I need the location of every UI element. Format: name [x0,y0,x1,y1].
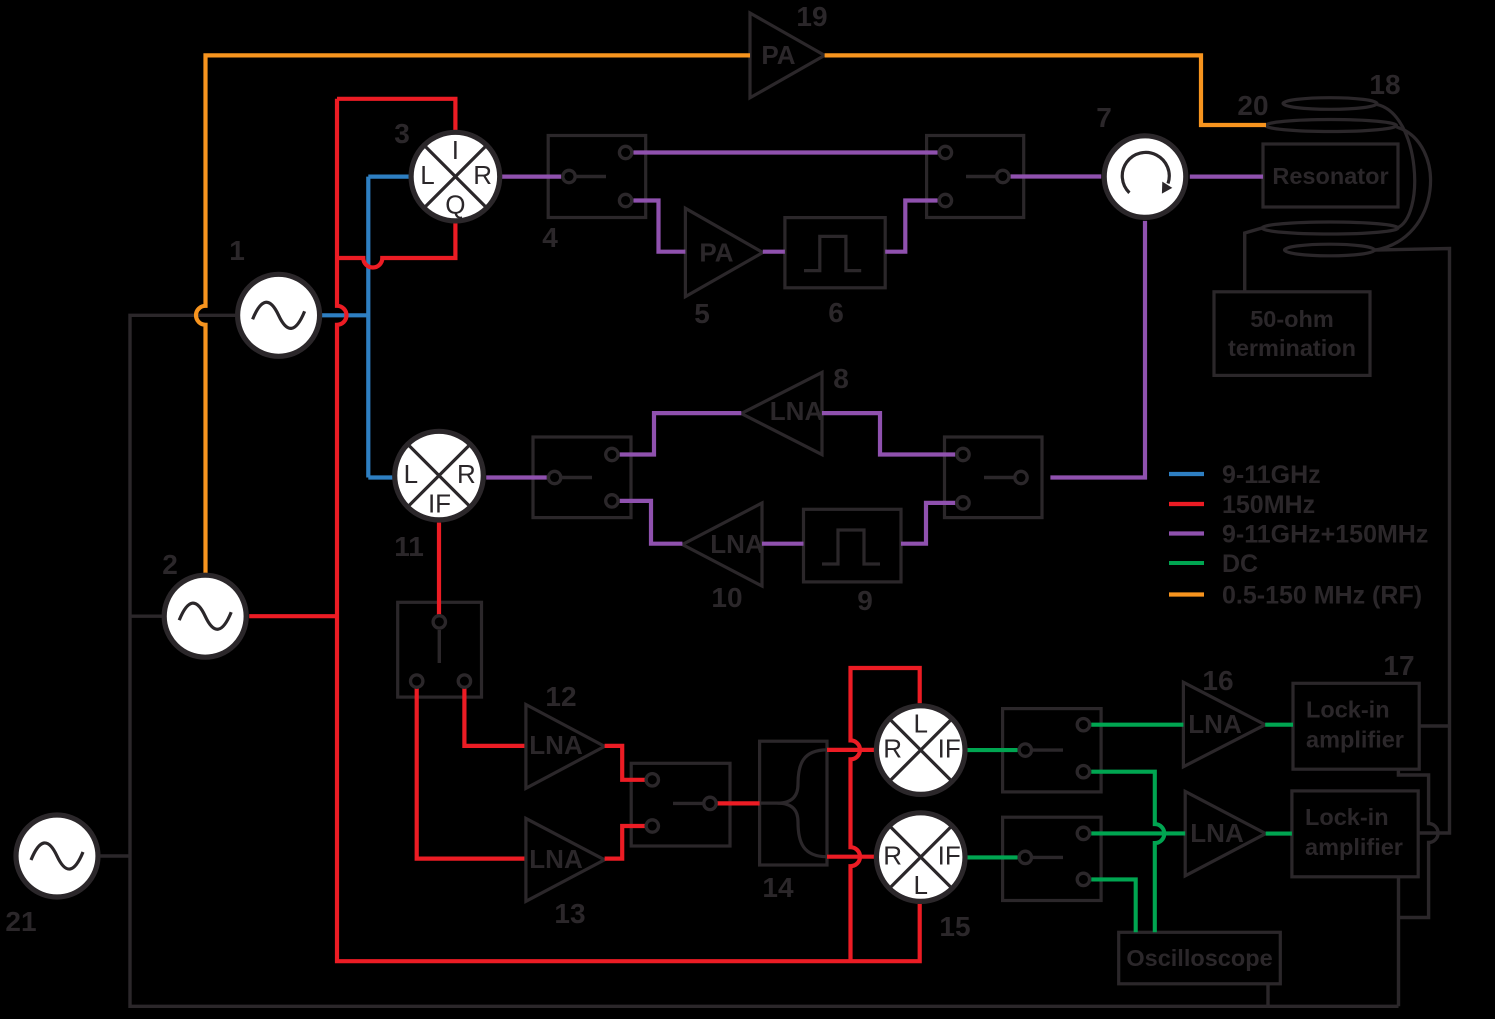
wire: red from selector switch output to splitter 14 [717,801,759,805]
svg-text:termination: termination [1228,335,1356,361]
low-noise amplifier LNA 12 [526,705,605,789]
svg-text:1: 1 [229,235,245,266]
svg-text:Lock-in: Lock-in [1305,804,1389,830]
svg-text:9: 9 [857,585,873,616]
wire: red from LNA 12 output to selector switch upper input [605,746,646,780]
svg-text:7: 7 [1096,102,1112,133]
middle left switch port circles [548,448,618,507]
svg-text:LNA: LNA [529,844,583,874]
wire: red from bottom rail corner up to mixer 15 lower L port [851,904,920,961]
low-noise amplifier LNA 10 (pointing left) [682,503,764,586]
wire: purple circulator 7 to resonator [1190,175,1263,179]
svg-text:10: 10 [711,582,742,613]
legend: 0.5-150 MHz (RF) orange [1169,582,1422,610]
vertical switch port circles [411,616,471,688]
svg-text:12: 12 [545,681,576,712]
oscilloscope box [1119,932,1281,984]
wire: red 150MHz vertical bus from mixer 3 loop down (hop over blue) to bottom rail [337,99,851,961]
wire: purple lower branch via pulse shaper 9 and LNA 10 [620,501,956,544]
wire: trigger/sync bus from source 1 left, down left side, along bottom to lock-in amplifiers [130,315,1399,1006]
lock-in amplifier 17 (upper) [1293,683,1419,769]
mixer 15 (lower) [876,813,965,902]
switch (SPDT, middle row left) [533,437,631,518]
wire: lock-in 1 bottom down, hop over lock-in 2 reference wire, join lock-in 2 bottom wire [1398,769,1438,917]
svg-text:4: 4 [542,222,558,253]
wire: RF reference rail from coil 18 down right side to lock-in amplifiers [1375,249,1450,834]
50-ohm termination box [1214,292,1370,376]
svg-text:13: 13 [554,898,585,929]
label 7 [1096,102,1112,133]
wire: purple right switch output to circulator 7 [1011,174,1102,178]
middle right switch port circles [957,448,1027,509]
svg-text:R: R [473,160,492,190]
wire: red LO line from bottom rail up (hops over splitter outputs) to mixer 15 upper L port [851,668,920,961]
wire: green mixer 15 lower IF to switch [967,855,1018,859]
svg-text:14: 14 [762,872,794,903]
label 9 [857,585,873,616]
label 18 [1369,69,1400,100]
wire: source 21 right stub to left bus [100,854,130,857]
svg-text:9-11GHz: 9-11GHz [1222,461,1321,489]
svg-text:0.5-150 MHz (RF): 0.5-150 MHz (RF) [1222,582,1422,610]
wire: lock-in 2 bottom to bottom bus [1397,877,1400,1007]
wire: coil 18 to 50-ohm termination [1245,228,1262,292]
low-noise amplifier LNA 16 [1183,682,1265,766]
svg-text:3: 3 [394,118,410,149]
mixer 11 [395,431,484,520]
wire: red from source 2 output to red bus junction [249,614,337,618]
label 6 [828,297,844,328]
wire: source 2 left stub to left bus [130,615,163,618]
low-noise amplifier (lower, unnumbered) [1185,791,1266,875]
switch 4 (SPDT, top row left) [548,136,646,218]
svg-text:PA: PA [699,238,733,268]
svg-text:LNA: LNA [1190,818,1244,848]
svg-text:L: L [913,709,927,739]
circulator 7 [1104,136,1186,218]
svg-text:LNA: LNA [529,730,583,760]
svg-text:PA: PA [761,40,795,70]
svg-text:18: 18 [1369,69,1400,100]
svg-text:15: 15 [939,911,970,942]
wire: red from switch right output down to LNA 12 [464,688,524,746]
wire: red from switch left output down to LNA 13 [417,688,525,859]
label 10 [711,582,742,613]
svg-text:IF: IF [428,489,451,519]
svg-text:L: L [420,160,434,190]
lock-in amplifier (lower) [1292,791,1418,877]
svg-text:LNA: LNA [770,396,824,426]
svg-text:6: 6 [828,297,844,328]
svg-text:16: 16 [1202,665,1233,696]
wire: green mixer 15 upper IF to switch [967,748,1018,752]
svg-text:21: 21 [5,906,36,937]
pulse shaper 6 box [785,218,885,288]
label 15 [939,911,970,942]
label 8 [833,363,849,394]
wire: purple mixer 3 RF out to switch 4 [502,175,562,179]
svg-text:8: 8 [833,363,849,394]
svg-text:I: I [452,135,459,165]
svg-text:50-ohm: 50-ohm [1250,306,1334,332]
top right switch port circles [939,146,1009,206]
svg-text:LNA: LNA [1188,709,1242,739]
wire: green lower switch lower out to oscilloscope [1091,879,1136,932]
wire: orange from PA 19 output across top down to coil 18 feed [825,55,1266,125]
label 21 [5,906,36,937]
wire: red splitter 14 lower output to mixer 15 lower R port [827,855,874,859]
svg-text:Lock-in: Lock-in [1306,697,1390,723]
coil 18 around resonator [1262,98,1431,256]
svg-text:11: 11 [394,531,424,562]
resonator box [1263,144,1398,207]
mixer 3 (IQ mixer) [411,132,500,221]
label 19 [796,1,827,32]
legend: 9-11GHz+150MHz purple [1169,521,1428,549]
svg-text:IF: IF [938,841,961,871]
switch (SPDT, middle row right) [945,437,1043,518]
wire: red from LNA 13 output to selector switch lower input [605,826,646,859]
svg-text:amplifier: amplifier [1306,727,1404,753]
switch 4 port circles [563,146,632,206]
label 16 [1202,665,1233,696]
svg-text:9-11GHz+150MHz: 9-11GHz+150MHz [1222,521,1428,549]
wire: purple circulator 7 down to middle row right switch [1050,221,1145,478]
svg-text:R: R [883,734,902,764]
low-noise amplifier LNA 8 (pointing left) [741,372,823,454]
svg-text:Q: Q [445,190,465,220]
power amplifier PA 19 [750,13,825,98]
svg-text:5: 5 [694,298,710,329]
mixer 15 (upper) [876,706,965,795]
legend: DC green [1169,550,1258,578]
wire: green lower switch upper out to lower LNA to lock-in 2 [1091,831,1292,835]
svg-text:Oscilloscope: Oscilloscope [1126,945,1272,971]
label 4 [542,222,558,253]
svg-text:DC: DC [1222,550,1258,578]
wire: red splitter 14 upper output to mixer 15 upper R port [827,748,874,752]
svg-text:L: L [913,870,927,900]
svg-text:L: L [404,459,418,489]
legend: 9-11GHz blue [1169,461,1321,489]
wire: red 150MHz loop from red bus to mixer 3 I and Q ports [337,99,455,268]
svg-text:IF: IF [938,734,961,764]
lower output switch port circles [1019,827,1090,885]
wire: lock-in 1 right stub to reference rail [1419,724,1449,727]
svg-text:2: 2 [162,549,178,580]
wire: green switch upper out to LNA 16 to lock-in 1 [1091,723,1293,727]
source 1 (microwave signal generator) [238,274,320,356]
svg-text:150MHz: 150MHz [1222,491,1315,519]
wire: purple middle left switch common to mixer 11 RF [486,475,547,479]
switch (SPDT, top row right) [927,136,1024,218]
svg-text:17: 17 [1383,650,1414,681]
power amplifier PA 5 [685,208,762,296]
power splitter 14 [760,741,827,865]
label 13 [554,898,585,929]
label 12 [545,681,576,712]
label 1 [229,235,245,266]
switch (SPDT, after mixer 15 upper) [1003,709,1102,792]
switch (2-to-1, after LNA 12/13) [631,763,730,846]
svg-text:20: 20 [1237,90,1268,121]
svg-text:amplifier: amplifier [1305,834,1403,860]
label 2 [162,549,178,580]
wire: green switch lower out down to oscilloscope (hop over lower green) [1091,772,1164,933]
source 21 (reference signal generator) [16,815,98,897]
wire: oscilloscope bottom stub to bottom bus [1266,984,1269,1007]
label 17 [1383,650,1414,681]
legend: 150MHz red [1169,491,1315,519]
svg-text:Resonator: Resonator [1272,163,1388,189]
source 2 (150MHz signal generator) [164,575,246,657]
label 5 [694,298,710,329]
upper output switch port circles [1019,719,1090,778]
switch (SPDT vertical, below mixer 11) [398,602,482,697]
switch (SPDT, after mixer 15 lower) [1003,817,1102,900]
svg-text:LNA: LNA [710,529,764,559]
pulse shaper 9 box [804,509,902,582]
wire: purple middle right switch upper port via LNA 8 to middle left switch upper port [620,413,956,454]
wire: blue 9-11GHz from source 1 to mixer 3 LO and mixer 11 LO [322,177,410,478]
wire: orange RF 0.5-150MHz from source 2 up (hop over sync bus), across top to PA 19 [196,55,750,573]
low-noise amplifier LNA 13 [526,818,605,901]
svg-text:R: R [457,459,476,489]
wire: purple switch 4 lower output via PA 5 and pulse shaper 6 [633,201,937,252]
wire: red from mixer 11 IF down to vertical switch [437,523,441,615]
wire: purple switch 4 upper output to right switch (bypass line) [633,150,937,154]
selector switch port circles [646,774,716,833]
svg-text:19: 19 [796,1,827,32]
label 3 [394,118,410,149]
label 14 [762,872,794,903]
svg-text:R: R [883,841,902,871]
label 11 [394,531,424,562]
label 20 [1237,90,1268,121]
